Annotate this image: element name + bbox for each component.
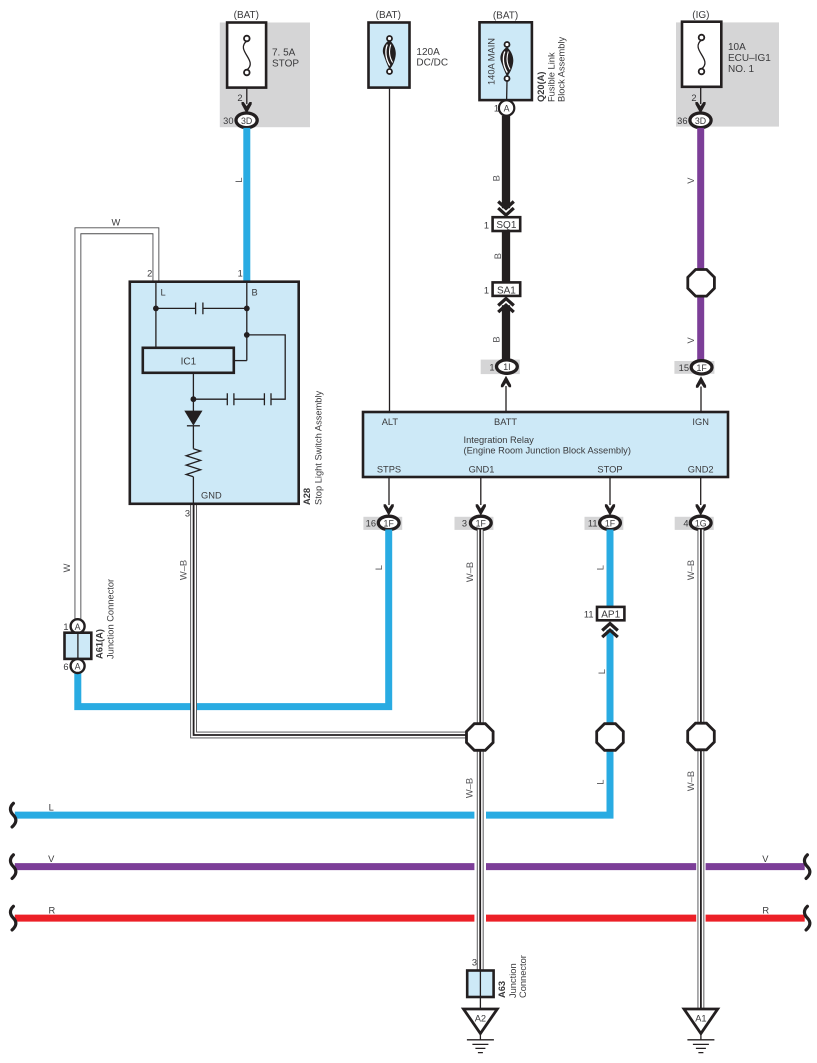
svg-text:GND1: GND1: [469, 465, 495, 475]
svg-text:Junction Connector: Junction Connector: [106, 579, 116, 659]
svg-text:1: 1: [494, 104, 499, 114]
node dot B: [244, 306, 250, 312]
svg-text:L: L: [374, 565, 384, 570]
svg-text:1: 1: [484, 285, 489, 295]
break symbol V bus right: [804, 855, 809, 879]
fuse 10A element: [698, 40, 705, 69]
svg-text:B: B: [252, 288, 258, 298]
svg-text:W–B: W–B: [179, 560, 189, 580]
wire L (blue) A61 to STPS: [78, 530, 389, 707]
svg-text:L: L: [596, 565, 606, 570]
svg-text:W: W: [112, 218, 121, 228]
svg-text:W–B: W–B: [686, 771, 696, 791]
svg-text:DC/DC: DC/DC: [416, 58, 448, 69]
capacitor L-B right lead: [203, 307, 247, 309]
wire L (blue) 3D to stop light switch pin 1: [243, 128, 250, 282]
svg-text:A63: A63: [497, 981, 507, 998]
svg-text:4: 4: [683, 519, 688, 529]
bus wire V (purple): [15, 863, 805, 870]
wire STOP to 1F: [609, 477, 611, 505]
svg-text:STPS: STPS: [377, 465, 401, 475]
svg-text:3: 3: [472, 958, 477, 968]
svg-text:W–B: W–B: [465, 562, 475, 582]
node dot B2: [244, 332, 250, 338]
svg-text:3: 3: [185, 509, 190, 519]
svg-text:L: L: [234, 177, 244, 182]
grey background box STOP fuse: [220, 23, 310, 128]
svg-text:2: 2: [691, 93, 696, 103]
node dot L: [153, 306, 159, 312]
wire to A circle: [506, 81, 508, 101]
connector SQ1: [493, 217, 521, 231]
svg-text:140A MAIN: 140A MAIN: [487, 38, 497, 85]
junction octagon STOP: [597, 724, 624, 751]
svg-text:11: 11: [584, 609, 594, 619]
capacitor L-B left lead: [156, 307, 196, 309]
svg-text:10A: 10A: [728, 42, 746, 53]
svg-text:L: L: [597, 669, 607, 674]
break symbol R bus right: [804, 906, 809, 930]
svg-text:30: 30: [223, 116, 233, 126]
svg-text:Fusible Link: Fusible Link: [547, 52, 557, 102]
lead to node: [193, 398, 227, 400]
svg-text:1F: 1F: [605, 519, 616, 529]
break symbol V bus left: [10, 855, 15, 879]
svg-text:AP1: AP1: [601, 610, 620, 621]
ground A1: [684, 1009, 718, 1034]
IC1 to B stub: [234, 360, 247, 362]
bus wire R (red): [15, 915, 805, 922]
svg-text:6: 6: [63, 662, 68, 672]
svg-text:A28: A28: [302, 488, 312, 505]
junction connector A63: [467, 971, 493, 998]
wire W-B GND2 to ground A1: [698, 530, 705, 1010]
capacitor pair plates right: [264, 393, 271, 405]
svg-text:W: W: [62, 563, 72, 572]
svg-text:BATT: BATT: [494, 417, 517, 427]
svg-text:ECU–IG1: ECU–IG1: [728, 53, 771, 64]
svg-text:Junction: Junction: [508, 963, 518, 998]
wire fuse to connector: [246, 88, 248, 104]
junction octagon GND1: [467, 724, 494, 751]
wire GND2 to 1G: [700, 477, 702, 505]
svg-text:STOP: STOP: [597, 465, 622, 475]
junction connector A61: [71, 619, 85, 633]
connector 1 (A): [499, 100, 514, 115]
svg-text:IC1: IC1: [181, 357, 197, 368]
svg-text:(BAT): (BAT): [234, 10, 259, 21]
svg-text:2: 2: [237, 93, 242, 103]
chevron out of AP1: [602, 624, 618, 638]
connector SA1: [493, 282, 521, 296]
svg-text:V: V: [686, 337, 696, 344]
connector 36 (3D): [690, 113, 711, 128]
svg-text:16: 16: [366, 519, 376, 529]
svg-text:L: L: [595, 780, 605, 785]
svg-text:STOP: STOP: [272, 59, 299, 70]
chevron out of SA1: [498, 299, 514, 313]
junction octagon IGN: [688, 270, 715, 297]
fuse 7.5A STOP box: [227, 23, 266, 88]
arrow into 3D: [242, 102, 252, 114]
svg-text:36: 36: [677, 116, 687, 126]
connector AP1: [597, 607, 624, 620]
svg-text:1: 1: [489, 362, 494, 372]
wire B (black) A to 1I: [502, 116, 510, 360]
wire W-B GND1 to ground A2: [477, 530, 484, 971]
svg-text:A2: A2: [475, 1014, 486, 1024]
ground A2: [479, 997, 481, 1009]
svg-text:A: A: [75, 622, 81, 632]
wire B2 to right rail: [247, 335, 285, 399]
svg-text:B: B: [491, 336, 501, 342]
svg-text:1F: 1F: [696, 363, 707, 373]
svg-text:L: L: [49, 802, 54, 812]
connector 11 (1F): [585, 517, 624, 530]
pin L line: [155, 282, 157, 348]
arrow into 3D: [695, 102, 705, 114]
wire STPS to 1F: [388, 477, 390, 505]
resistor: [186, 449, 200, 477]
svg-text:1F: 1F: [384, 519, 395, 529]
arrow up to 1F: [696, 376, 706, 388]
svg-text:GND: GND: [201, 491, 222, 501]
svg-text:L: L: [161, 288, 166, 298]
node dot below IC1: [191, 396, 197, 402]
connector 3 (1F): [455, 517, 494, 530]
resistor to GND lead: [192, 477, 194, 504]
fusible link 120A element: [383, 40, 396, 70]
svg-text:Stop Light Switch Assembly: Stop Light Switch Assembly: [313, 390, 323, 505]
svg-text:B: B: [493, 253, 503, 259]
IC1 bottom lead: [192, 373, 194, 411]
svg-text:1: 1: [484, 220, 489, 230]
svg-text:1: 1: [238, 269, 243, 279]
bus wire L (blue): [15, 630, 610, 815]
svg-text:GND2: GND2: [688, 465, 714, 475]
svg-text:V: V: [686, 177, 696, 184]
svg-text:ALT: ALT: [382, 417, 399, 427]
svg-text:7. 5A: 7. 5A: [272, 48, 296, 59]
grey background box IG fuse: [676, 22, 779, 126]
connector 15 (1F): [674, 361, 714, 374]
svg-text:R: R: [762, 905, 769, 915]
pin B line: [246, 282, 248, 361]
svg-text:Connector: Connector: [518, 955, 528, 998]
wire V (purple) 3D to 1F: [697, 128, 704, 361]
svg-text:A: A: [75, 662, 81, 672]
svg-text:(IG): (IG): [692, 10, 709, 21]
fuse 10A ECU-IG1 box: [682, 22, 721, 87]
svg-text:15: 15: [679, 363, 689, 373]
svg-text:3D: 3D: [695, 116, 706, 126]
diode D1: [184, 411, 202, 426]
wire to BATT: [505, 386, 507, 412]
svg-text:2: 2: [147, 269, 152, 279]
svg-text:V: V: [762, 854, 769, 864]
svg-text:Q20(A): Q20(A): [536, 72, 546, 102]
fuse 7.5A STOP element: [243, 41, 250, 70]
svg-text:W–B: W–B: [465, 778, 475, 798]
svg-text:Block Assembly: Block Assembly: [557, 37, 567, 102]
svg-text:3: 3: [462, 519, 467, 529]
wire GND1 to 1F: [480, 477, 482, 505]
connector 30 (3D): [236, 113, 257, 128]
wire W stop light switch pin2 to A61: [78, 231, 156, 620]
integration relay box: [363, 412, 728, 477]
fusible link 140A MAIN box: [480, 22, 532, 100]
connector 4 (1G): [675, 517, 714, 530]
svg-text:V: V: [48, 854, 55, 864]
connector 1 (1I): [481, 360, 520, 375]
svg-text:IGN: IGN: [692, 417, 709, 427]
lead between capacitors: [234, 398, 265, 400]
break symbol R bus left: [10, 906, 15, 930]
svg-text:A61(A): A61(A): [95, 629, 105, 659]
svg-text:1I: 1I: [503, 362, 510, 372]
svg-text:SA1: SA1: [497, 285, 516, 296]
wire to IGN: [700, 387, 702, 413]
diode to resistor lead: [192, 426, 194, 449]
svg-text:120A: 120A: [416, 47, 440, 58]
svg-text:11: 11: [588, 519, 598, 529]
capacitor L-B plates: [196, 303, 203, 315]
svg-text:A: A: [504, 104, 510, 114]
arrow up to 1I: [501, 376, 511, 388]
svg-text:(Engine Room Junction Block As: (Engine Room Junction Block Assembly): [464, 446, 631, 456]
svg-text:1: 1: [63, 622, 68, 632]
svg-text:B: B: [491, 175, 501, 181]
wire L (blue) STOP 1F to AP1: [607, 530, 614, 609]
svg-text:NO. 1: NO. 1: [728, 64, 755, 75]
wire W-B from A28 GND to octagon: [194, 504, 470, 735]
wire DC/DC to ALT: [389, 88, 391, 412]
break symbol L bus left: [10, 803, 15, 827]
stop light switch assembly A28 box: [130, 282, 299, 504]
svg-text:A1: A1: [695, 1014, 706, 1024]
fusible link 140A element: [500, 47, 513, 77]
svg-text:(BAT): (BAT): [493, 11, 518, 22]
connector 16 (1F): [363, 517, 402, 530]
svg-text:R: R: [49, 905, 56, 915]
svg-text:1F: 1F: [476, 519, 487, 529]
svg-text:(BAT): (BAT): [376, 10, 401, 21]
svg-text:1G: 1G: [695, 519, 707, 529]
svg-text:W–B: W–B: [686, 560, 696, 580]
capacitor pair plates left: [227, 393, 234, 405]
IC1 box: [143, 348, 234, 373]
wire fuse to connector: [700, 87, 702, 104]
junction octagon GND2: [688, 723, 715, 750]
chevron into SQ1: [498, 202, 514, 216]
svg-text:Integration Relay: Integration Relay: [464, 435, 535, 445]
svg-text:SQ1: SQ1: [496, 220, 516, 231]
svg-text:3D: 3D: [241, 116, 252, 126]
fuse 120A DC/DC box: [369, 23, 410, 88]
